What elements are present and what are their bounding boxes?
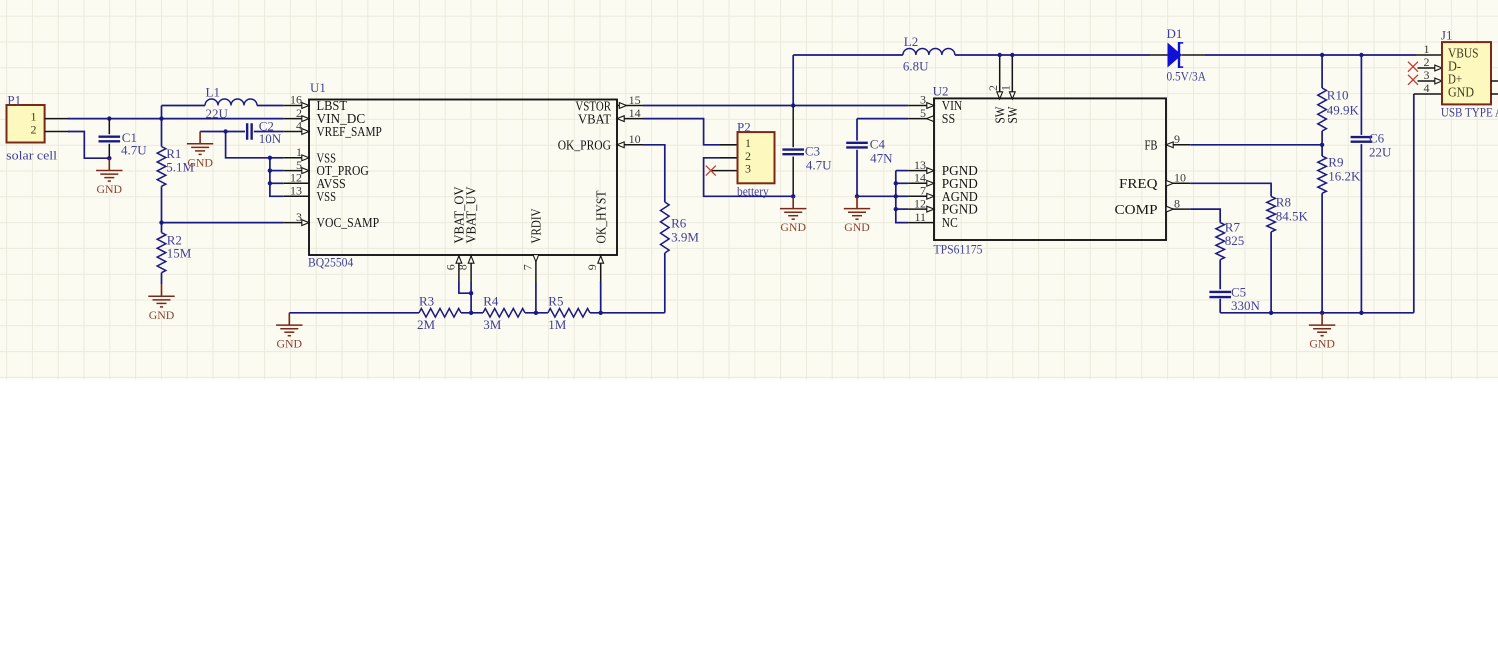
svg-text:16: 16 bbox=[290, 93, 302, 107]
svg-text:22U: 22U bbox=[1369, 145, 1392, 160]
svg-text:1M: 1M bbox=[548, 317, 567, 332]
svg-text:4.7U: 4.7U bbox=[121, 142, 147, 157]
svg-text:15M: 15M bbox=[167, 246, 192, 261]
svg-text:47N: 47N bbox=[870, 150, 893, 165]
svg-text:3: 3 bbox=[745, 162, 751, 176]
svg-text:SW: SW bbox=[1005, 106, 1020, 123]
svg-text:10: 10 bbox=[629, 132, 641, 146]
svg-text:GND: GND bbox=[97, 182, 123, 196]
svg-text:330N: 330N bbox=[1231, 298, 1261, 313]
svg-text:10N: 10N bbox=[259, 131, 282, 146]
svg-text:12: 12 bbox=[914, 196, 926, 210]
svg-text:R9: R9 bbox=[1328, 154, 1343, 169]
svg-text:22U: 22U bbox=[206, 106, 229, 121]
svg-text:8: 8 bbox=[1174, 197, 1180, 211]
svg-text:3: 3 bbox=[1424, 68, 1430, 82]
svg-text:OK_PROG: OK_PROG bbox=[558, 138, 612, 153]
svg-text:4: 4 bbox=[296, 119, 302, 133]
svg-text:3: 3 bbox=[920, 93, 926, 107]
svg-text:4: 4 bbox=[1424, 81, 1430, 95]
svg-text:BQ25504: BQ25504 bbox=[308, 254, 354, 269]
svg-text:2: 2 bbox=[296, 106, 302, 120]
svg-text:bettery: bettery bbox=[737, 183, 769, 198]
svg-text:11: 11 bbox=[914, 210, 926, 224]
svg-text:VBAT_UV: VBAT_UV bbox=[464, 186, 479, 243]
svg-text:GND: GND bbox=[844, 220, 870, 234]
svg-text:P2: P2 bbox=[737, 120, 751, 135]
svg-text:12: 12 bbox=[290, 171, 302, 185]
svg-text:6.8U: 6.8U bbox=[903, 59, 929, 74]
svg-text:8: 8 bbox=[456, 264, 470, 270]
svg-text:VRDIV: VRDIV bbox=[529, 208, 544, 243]
svg-text:15: 15 bbox=[629, 93, 641, 107]
svg-text:R3: R3 bbox=[419, 294, 434, 309]
svg-text:GND: GND bbox=[149, 308, 175, 322]
svg-text:2: 2 bbox=[31, 122, 37, 136]
svg-text:P1: P1 bbox=[7, 93, 21, 108]
svg-text:14: 14 bbox=[629, 106, 641, 120]
svg-text:GND: GND bbox=[780, 220, 806, 234]
svg-text:825: 825 bbox=[1225, 233, 1245, 248]
svg-text:GND: GND bbox=[277, 337, 303, 351]
svg-text:10: 10 bbox=[1174, 171, 1186, 185]
svg-text:R6: R6 bbox=[671, 216, 687, 231]
svg-text:VREF_SAMP: VREF_SAMP bbox=[317, 124, 382, 139]
svg-text:2M: 2M bbox=[417, 317, 436, 332]
svg-text:L2: L2 bbox=[904, 34, 918, 49]
svg-text:3: 3 bbox=[296, 210, 302, 224]
svg-text:TPS61175: TPS61175 bbox=[934, 242, 983, 257]
svg-text:J1: J1 bbox=[1441, 27, 1453, 42]
svg-text:NC: NC bbox=[942, 215, 958, 230]
svg-text:VOC_SAMP: VOC_SAMP bbox=[317, 215, 380, 230]
svg-text:16.2K: 16.2K bbox=[1328, 169, 1361, 184]
svg-text:VSS: VSS bbox=[317, 189, 337, 204]
svg-text:L1: L1 bbox=[206, 85, 220, 100]
svg-text:solar cell: solar cell bbox=[6, 147, 57, 162]
svg-text:3M: 3M bbox=[483, 317, 502, 332]
svg-text:R5: R5 bbox=[548, 294, 563, 309]
svg-text:FB: FB bbox=[1145, 138, 1158, 153]
svg-text:C6: C6 bbox=[1369, 131, 1385, 146]
svg-text:C4: C4 bbox=[870, 137, 886, 152]
svg-text:49.9K: 49.9K bbox=[1327, 102, 1360, 117]
svg-text:D1: D1 bbox=[1167, 26, 1183, 41]
svg-text:R7: R7 bbox=[1225, 219, 1241, 234]
svg-text:R4: R4 bbox=[483, 294, 499, 309]
svg-text:13: 13 bbox=[290, 184, 302, 198]
svg-text:R10: R10 bbox=[1327, 88, 1349, 103]
svg-text:7: 7 bbox=[520, 264, 534, 270]
svg-text:1: 1 bbox=[745, 136, 751, 150]
svg-text:0.5V/3A: 0.5V/3A bbox=[1167, 69, 1207, 84]
svg-text:USB TYPE A: USB TYPE A bbox=[1441, 104, 1498, 119]
svg-text:1: 1 bbox=[1424, 42, 1430, 56]
svg-text:GND: GND bbox=[187, 155, 213, 169]
svg-text:GND: GND bbox=[1309, 337, 1335, 351]
svg-text:84.5K: 84.5K bbox=[1276, 208, 1309, 223]
svg-text:4.7U: 4.7U bbox=[806, 158, 832, 173]
svg-text:SS: SS bbox=[942, 111, 955, 126]
svg-text:9: 9 bbox=[585, 264, 599, 270]
svg-text:U1: U1 bbox=[310, 80, 326, 95]
svg-text:1: 1 bbox=[31, 109, 37, 123]
svg-text:COMP: COMP bbox=[1115, 202, 1158, 217]
svg-text:5: 5 bbox=[920, 106, 926, 120]
svg-text:OK_HYST: OK_HYST bbox=[593, 191, 608, 244]
svg-text:2: 2 bbox=[1424, 55, 1430, 69]
svg-text:R8: R8 bbox=[1276, 195, 1291, 210]
svg-text:GND: GND bbox=[1448, 84, 1474, 99]
svg-text:VBAT: VBAT bbox=[578, 111, 612, 126]
svg-text:1: 1 bbox=[999, 85, 1013, 91]
svg-text:FREQ: FREQ bbox=[1119, 176, 1158, 191]
svg-text:3.9M: 3.9M bbox=[671, 229, 699, 244]
svg-text:14: 14 bbox=[914, 171, 926, 185]
svg-text:C3: C3 bbox=[805, 144, 820, 159]
svg-text:9: 9 bbox=[1174, 132, 1180, 146]
svg-text:U2: U2 bbox=[933, 84, 949, 99]
